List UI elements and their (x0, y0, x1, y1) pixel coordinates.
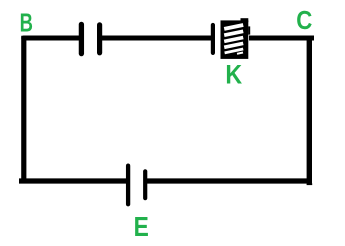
battery E left plate (positive, long) (126, 166, 130, 205)
wire: right vertical (C corner down to bottom-right corner) (307, 36, 312, 184)
svg-text:E: E (134, 212, 149, 243)
label E (battery) (134, 212, 149, 243)
capacitor plate 2 (right) (97, 25, 102, 53)
svg-text:B: B (20, 9, 33, 38)
wire: top-right horizontal (K to node C corner) (249, 35, 314, 40)
capacitor K left plate (211, 25, 215, 53)
wire: top-left horizontal (node B corner to capacitor) (24, 35, 81, 40)
capacitor plate 1 (left) (79, 24, 84, 53)
node C label (296, 7, 312, 36)
label K (component K) (225, 60, 242, 90)
capacitor K body (hatched box) (221, 18, 251, 59)
battery E right plate (negative, short) (143, 171, 147, 198)
wire: bottom-left horizontal (battery to corner, slight overshoot) (19, 178, 128, 183)
svg-text:C: C (296, 7, 312, 36)
wire: bottom-right horizontal (corner to battery E) (145, 181, 312, 185)
node B label (20, 9, 33, 38)
wire: left vertical (node B corner down to bottom-left corner) (21, 36, 26, 184)
wire: top middle horizontal (capacitor to K) (100, 35, 213, 40)
svg-text:K: K (225, 60, 242, 90)
